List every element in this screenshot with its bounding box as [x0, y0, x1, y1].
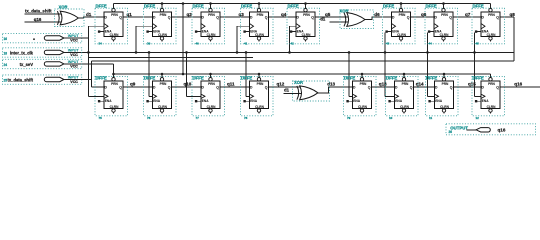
flip-flop FF10 (DFFE): [144, 75, 177, 119]
svg-text:PRN: PRN: [488, 82, 495, 86]
wire: q8 return rail: [92, 17, 515, 87]
svg-text:PRN: PRN: [160, 13, 167, 17]
wire: bottom clock feed: [473, 32, 481, 96]
svg-text:D: D: [153, 16, 156, 20]
svg-text:q5: q5: [325, 12, 331, 17]
wire q5: [315, 12, 348, 17]
svg-text:76: 76: [147, 116, 151, 120]
svg-text:XOR: XOR: [294, 80, 303, 85]
svg-text:DFFE: DFFE: [473, 75, 484, 80]
svg-text:12: 12: [476, 116, 480, 120]
svg-text:PRN: PRN: [488, 13, 495, 17]
wire q13: [372, 82, 395, 87]
svg-text:24: 24: [4, 63, 8, 67]
xor gate XOR2: [344, 13, 365, 27]
input pin: tx_seV: [3, 59, 82, 68]
svg-text:INPUT: INPUT: [68, 48, 80, 52]
svg-text:79: 79: [347, 116, 351, 120]
svg-text:DFFE: DFFE: [193, 75, 204, 80]
svg-text:DFFE: DFFE: [383, 4, 394, 9]
svg-text:Q: Q: [168, 16, 171, 20]
svg-text:43: 43: [386, 42, 390, 46]
svg-text:DFFE: DFFE: [193, 4, 204, 9]
svg-text:CLRN: CLRN: [487, 33, 497, 37]
svg-text:CLRN: CLRN: [158, 33, 168, 37]
wire q9: [123, 82, 152, 87]
svg-text:q7: q7: [465, 12, 471, 17]
svg-text:q12: q12: [277, 82, 285, 87]
wire q15: [454, 82, 481, 87]
svg-text:D: D: [434, 16, 437, 20]
svg-text:PRN: PRN: [303, 13, 310, 17]
wire q16 output: [500, 81, 540, 87]
svg-text:ENA: ENA: [482, 99, 489, 103]
wire: enable pin feed: [87, 26, 104, 96]
wire: top preset rail: [114, 2, 491, 8]
flip-flop FF14 (DFFE): [386, 75, 419, 119]
svg-text:tx_data_shift: tx_data_shift: [7, 77, 33, 82]
wire: bottom clock feed: [384, 32, 395, 96]
flip-flop FF7 (DFFE): [425, 4, 458, 46]
svg-text:ENA: ENA: [250, 99, 257, 103]
svg-text:CLRN: CLRN: [397, 33, 407, 37]
wire: bottom clock feed: [185, 51, 201, 96]
svg-text:tx_data_shift: tx_data_shift: [25, 9, 52, 14]
svg-text:D: D: [296, 16, 299, 20]
svg-text:q16: q16: [514, 81, 522, 86]
svg-text:d13: d13: [327, 82, 335, 87]
svg-text:DFFE: DFFE: [426, 75, 437, 80]
svg-text:CLRN: CLRN: [110, 33, 120, 37]
svg-text:39: 39: [147, 42, 151, 46]
svg-text:DFFE: DFFE: [386, 75, 397, 80]
svg-text:VCC: VCC: [70, 53, 78, 57]
svg-text:D: D: [481, 16, 484, 20]
svg-text:CLRN: CLRN: [110, 105, 120, 109]
svg-text:D: D: [353, 86, 356, 90]
wire d13: [318, 82, 352, 93]
svg-text:16: 16: [4, 37, 8, 41]
svg-text:42: 42: [291, 42, 295, 46]
svg-text:OUTPUT: OUTPUT: [450, 125, 468, 130]
svg-text:78: 78: [244, 116, 248, 120]
svg-text:Q: Q: [265, 16, 268, 20]
input pin: tx_data_shift: [3, 75, 92, 84]
svg-text:D: D: [250, 16, 253, 20]
svg-text:Q: Q: [119, 16, 122, 20]
svg-text:ENA: ENA: [105, 99, 112, 103]
wire q3: [220, 12, 249, 17]
svg-text:INPUT: INPUT: [68, 60, 80, 64]
svg-text:34: 34: [99, 42, 103, 46]
wire: bottom clock feed: [426, 32, 434, 96]
svg-text:q16: q16: [34, 17, 42, 22]
svg-text:41: 41: [244, 42, 248, 46]
wire q8: [500, 12, 515, 17]
flip-flop FF16 (DFFE): [472, 75, 505, 119]
svg-text:d1: d1: [284, 88, 290, 93]
svg-text:DFFE: DFFE: [241, 75, 252, 80]
xor XOR3 dotted box: [293, 80, 330, 101]
svg-text:q2: q2: [187, 12, 193, 17]
svg-text:D: D: [104, 86, 107, 90]
svg-text:CLRN: CLRN: [440, 105, 450, 109]
wire q2: [172, 12, 201, 17]
flip-flop FF4 (DFFE): [241, 4, 274, 46]
svg-text:DFFE: DFFE: [144, 75, 155, 80]
svg-text:D: D: [153, 86, 156, 90]
wire q6: [411, 12, 434, 17]
svg-text:PRN: PRN: [257, 82, 264, 86]
svg-text:CLRN: CLRN: [158, 105, 168, 109]
svg-text:45: 45: [476, 42, 480, 46]
svg-text:PRN: PRN: [442, 82, 449, 86]
svg-text:Q: Q: [168, 86, 171, 90]
svg-text:q8: q8: [510, 12, 516, 17]
junction: preset rail drop: [182, 2, 185, 75]
svg-text:DFFE: DFFE: [473, 4, 484, 9]
svg-text:CLRN: CLRN: [207, 105, 217, 109]
svg-text:XOR: XOR: [59, 5, 68, 10]
svg-text:q14: q14: [416, 82, 424, 87]
svg-text:25: 25: [4, 79, 8, 83]
svg-text:ENA: ENA: [435, 99, 442, 103]
wire q12: [269, 82, 303, 87]
wire q1: [123, 12, 152, 17]
svg-text:PRN: PRN: [360, 82, 367, 86]
svg-text:D: D: [395, 86, 398, 90]
wire q11: [220, 82, 249, 87]
svg-text:INPUT: INPUT: [68, 75, 80, 79]
flip-flop FF13 (DFFE): [344, 75, 377, 119]
flip-flop FF6 (DFFE): [383, 4, 416, 46]
svg-text:D: D: [481, 86, 484, 90]
svg-text:d6: d6: [374, 12, 380, 17]
svg-text:Q: Q: [368, 86, 371, 90]
svg-text:CLRN: CLRN: [487, 105, 497, 109]
wire d6: [365, 12, 391, 20]
svg-text:44: 44: [429, 42, 433, 46]
input pin: inter_tx_clk: [3, 48, 82, 57]
svg-text:PRN: PRN: [111, 82, 118, 86]
svg-text:DFFE: DFFE: [241, 4, 252, 9]
wire: clock rail: [64, 51, 514, 53]
svg-text:CLRN: CLRN: [207, 33, 217, 37]
flip-flop FF3 (DFFE): [192, 4, 225, 46]
svg-text:75: 75: [99, 116, 103, 120]
wire q7: [453, 12, 481, 17]
svg-text:DFFE: DFFE: [344, 75, 355, 80]
svg-text:inter_tx_clk: inter_tx_clk: [10, 50, 34, 55]
svg-text:Q: Q: [311, 16, 314, 20]
svg-text:ENA: ENA: [395, 99, 402, 103]
svg-text:Q: Q: [407, 16, 410, 20]
svg-text:VCC: VCC: [70, 39, 78, 43]
svg-text:D: D: [250, 86, 253, 90]
svg-text:26: 26: [449, 130, 453, 134]
svg-text:D: D: [201, 86, 204, 90]
flip-flop FF1 (DFFE): [95, 4, 128, 46]
xor XOR2 d1 stub: [320, 16, 348, 22]
svg-text:INPUT: INPUT: [68, 34, 80, 38]
flip-flop FF11 (DFFE): [192, 75, 225, 119]
svg-text:Q: Q: [265, 86, 268, 90]
input pin: tx_seV feed wire: [64, 64, 114, 74]
flip-flop FF5 (DFFE): [287, 4, 320, 46]
svg-text:DFFE: DFFE: [144, 4, 155, 9]
svg-text:ENA: ENA: [153, 99, 160, 103]
wire: enable rail: [88, 57, 253, 59]
svg-text:DFFE: DFFE: [288, 4, 299, 9]
svg-text:DFFE: DFFE: [426, 4, 437, 9]
svg-text:D: D: [201, 16, 204, 20]
svg-text:18: 18: [4, 52, 8, 56]
wire: top clock feed: [236, 26, 250, 54]
svg-text:q9: q9: [130, 82, 136, 87]
wire: FF9 D input: [92, 86, 104, 88]
svg-text:Q: Q: [450, 86, 453, 90]
svg-text:q3: q3: [239, 12, 245, 17]
svg-text:PRN: PRN: [208, 13, 215, 17]
svg-text:PRN: PRN: [160, 82, 167, 86]
svg-text:CLRN: CLRN: [255, 105, 265, 109]
svg-text:77: 77: [196, 116, 200, 120]
svg-text:PRN: PRN: [257, 13, 264, 17]
svg-text:D: D: [104, 16, 107, 20]
svg-text:PRN: PRN: [208, 82, 215, 86]
svg-text:q10: q10: [184, 82, 192, 87]
svg-text:VCC: VCC: [70, 80, 78, 84]
svg-text:40: 40: [196, 42, 200, 46]
svg-text:CLRN: CLRN: [400, 105, 410, 109]
input pin: enable (.): [3, 33, 89, 42]
flip-flop FF8 (DFFE): [472, 4, 505, 46]
xor gate XOR3: [297, 86, 318, 100]
wire: bottom clock feed: [245, 51, 250, 96]
svg-text:Q: Q: [449, 16, 452, 20]
xor XOR1 dotted box: [55, 5, 85, 27]
svg-text:Q: Q: [216, 86, 219, 90]
svg-text:CLRN: CLRN: [440, 33, 450, 37]
svg-text:Q: Q: [119, 86, 122, 90]
flip-flop FF2 (DFFE): [144, 4, 177, 46]
svg-text:Q: Q: [496, 16, 499, 20]
svg-text:q16: q16: [498, 128, 506, 133]
wire: bottom clock feed: [348, 51, 353, 96]
svg-text:CLRN: CLRN: [358, 105, 368, 109]
svg-text:PRN: PRN: [402, 82, 409, 86]
wire: top clock feed: [135, 26, 153, 54]
wire q10: [172, 82, 201, 87]
svg-text:tx_seV: tx_seV: [20, 62, 34, 67]
svg-text:q4: q4: [281, 12, 287, 17]
svg-text:VCC: VCC: [70, 65, 78, 69]
svg-text:10: 10: [389, 116, 393, 120]
xor XOR1 input wires: [25, 9, 64, 22]
svg-text:PRN: PRN: [111, 13, 118, 17]
svg-text:Q: Q: [216, 16, 219, 20]
xor XOR2 dotted box: [340, 9, 374, 29]
svg-text:D: D: [392, 16, 395, 20]
svg-text:DFFE: DFFE: [96, 75, 107, 80]
svg-text:Q: Q: [496, 86, 499, 90]
svg-text:CLRN: CLRN: [302, 33, 312, 37]
svg-text:PRN: PRN: [399, 13, 406, 17]
wire d1: [78, 12, 103, 18]
output pin q16: [446, 124, 536, 135]
wire: bottom preset rail: [112, 73, 490, 78]
svg-text:ENA: ENA: [353, 99, 360, 103]
svg-text:DFFE: DFFE: [96, 4, 107, 9]
wire: bottom clock feed: [148, 51, 153, 96]
wire: top clock feed: [288, 26, 296, 54]
svg-text:q6: q6: [421, 12, 427, 17]
svg-text:CLRN: CLRN: [255, 33, 265, 37]
svg-text:PRN: PRN: [441, 13, 448, 17]
svg-text:ENA: ENA: [202, 99, 209, 103]
svg-text:d1: d1: [86, 12, 92, 17]
wire q14: [414, 82, 435, 87]
svg-text:D: D: [435, 86, 438, 90]
svg-text:q11: q11: [227, 82, 235, 87]
wire q4: [269, 12, 296, 17]
xor gate XOR1: [57, 11, 78, 25]
flip-flop FF12 (DFFE): [241, 75, 274, 119]
svg-text:Q: Q: [410, 86, 413, 90]
flip-flop FF9 (DFFE): [95, 75, 128, 119]
svg-text:d1: d1: [320, 16, 326, 21]
svg-text:11: 11: [429, 116, 433, 120]
xor XOR3 d1 stub: [284, 88, 302, 94]
flip-flop FF15 (DFFE): [426, 75, 459, 119]
